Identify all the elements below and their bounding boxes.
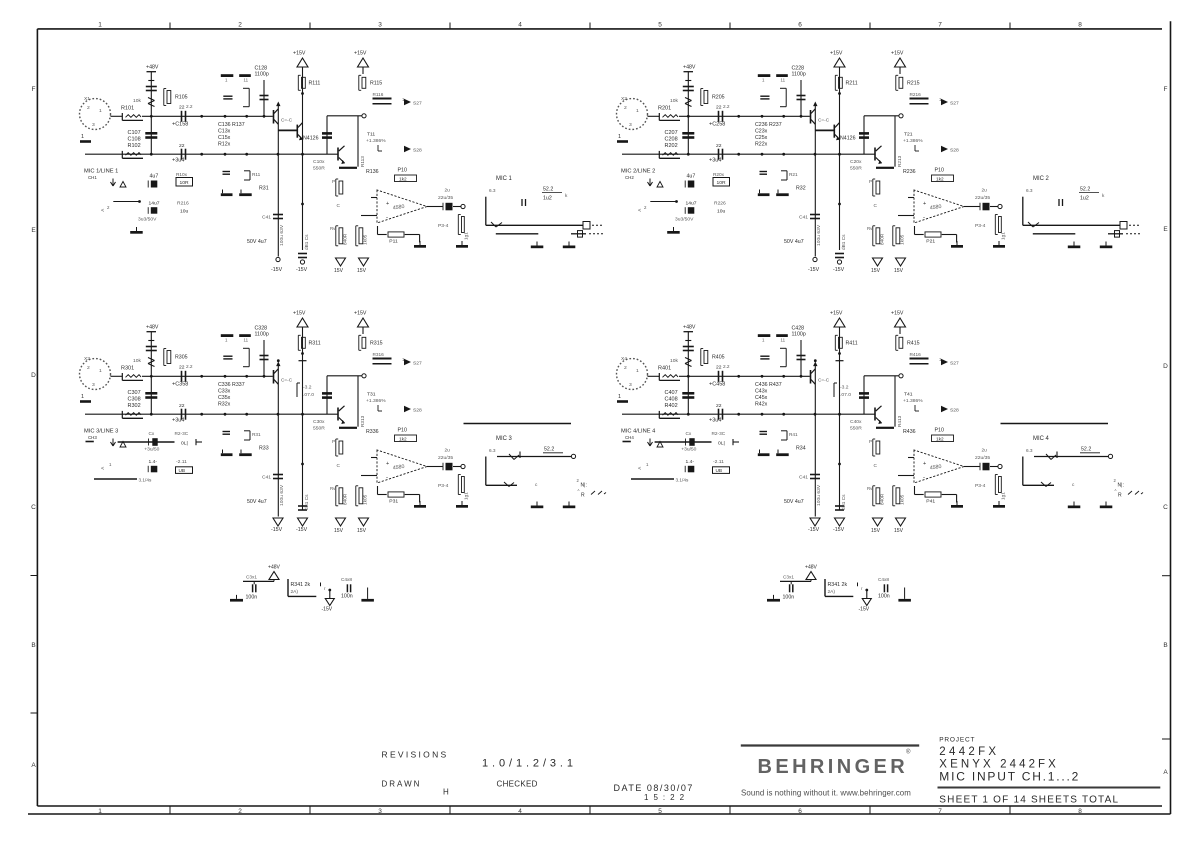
junction dot x302: [838, 92, 841, 95]
off-page arrow OUT B CH1: [404, 146, 411, 152]
svg-text:S28: S28: [950, 148, 959, 154]
row tick left: [31, 575, 38, 577]
svg-text:R305: R305: [175, 355, 188, 361]
svg-text:14u7: 14u7: [149, 201, 160, 207]
svg-text:^: ^: [578, 489, 580, 494]
transistor Q41a (PNP input): [810, 370, 812, 384]
svg-text:C: C: [874, 203, 878, 209]
svg-text:C=-C: C=-C: [818, 378, 830, 384]
svg-text:+48V: +48V: [146, 65, 159, 71]
svg-text:C107: C107: [128, 130, 141, 136]
svg-text:F: F: [32, 86, 36, 93]
wire collector node to terminal: [864, 115, 899, 117]
transistor Q11b (PNP): [278, 129, 296, 131]
XLR X1 pin 1 chassis bar: [80, 140, 91, 143]
svg-text:B: B: [1163, 642, 1167, 649]
svg-text:22u/35: 22u/35: [438, 455, 453, 461]
transistor Q42: [874, 408, 876, 421]
svg-text:+15V: +15V: [354, 51, 367, 57]
svg-text:R: R: [1118, 493, 1122, 499]
jack ground 1: [1073, 242, 1075, 246]
svg-text:550R: 550R: [850, 166, 862, 172]
svg-text:Cx: Cx: [149, 431, 155, 437]
phantom filter A: capacitor CA1: [252, 584, 254, 592]
capacitor C350 gray pair: [223, 431, 231, 433]
node rail A (hot) CH2: [679, 115, 810, 117]
svg-text:1: 1: [618, 134, 621, 140]
resistor R423 vertical: [872, 486, 874, 506]
jack tip wire CH4: [1022, 457, 1024, 486]
svg-text:11: 11: [781, 338, 786, 343]
svg-text:3: 3: [378, 22, 382, 29]
ground at output: [998, 241, 1000, 245]
ground at output: [998, 501, 1000, 505]
svg-text:2: 2: [87, 365, 90, 371]
svg-text:1100p: 1100p: [792, 72, 806, 78]
junction dots rail B: [150, 413, 153, 416]
svg-text:C: C: [874, 463, 878, 469]
svg-text:N|:: N|:: [1118, 483, 1124, 489]
svg-text:C=-C: C=-C: [818, 118, 830, 124]
resistor R202 (rail B): [658, 151, 660, 158]
phantom filter A: ground left: [236, 595, 238, 599]
network box (lower): [713, 467, 730, 474]
node rail B (cold) CH3: [85, 413, 338, 415]
svg-text:2.2: 2.2: [186, 364, 193, 370]
svg-text:10k: 10k: [670, 358, 678, 364]
svg-text:C3x1: C3x1: [783, 575, 794, 581]
column tick bottom 3: [449, 806, 451, 814]
svg-text:C108: C108: [128, 137, 141, 143]
svg-text:+15V: +15V: [354, 311, 367, 317]
resistor R305 (vertical, right of V1): [163, 349, 165, 366]
decoupling bars pair: [758, 453, 770, 456]
svg-text:F: F: [1164, 86, 1168, 93]
svg-text:P: P: [332, 179, 335, 185]
svg-text:R201: R201: [658, 106, 671, 112]
+15V supply triangle (Q31 bias): [297, 318, 308, 327]
jack switch contact: [491, 222, 496, 227]
svg-text:P11: P11: [389, 238, 398, 244]
ground at feedback: [419, 501, 421, 505]
branch -15V triangle x278: [273, 518, 283, 526]
svg-text:-: -: [923, 215, 925, 221]
svg-text:+1.386%: +1.386%: [903, 138, 923, 144]
decoupling bars pair: [758, 193, 770, 196]
jack switch contact: [509, 454, 514, 460]
svg-text:1: 1: [618, 394, 621, 400]
capacitor C359 (rail B series): [181, 409, 183, 420]
svg-text:1.4-: 1.4-: [149, 459, 158, 465]
emitter bar under Q22: [876, 167, 894, 169]
line input wire CH3: [86, 441, 94, 443]
svg-text:22: 22: [716, 403, 722, 409]
op-amp output stub: [964, 466, 969, 468]
svg-text:.07.0: .07.0: [303, 392, 314, 398]
svg-text:R216: R216: [177, 201, 189, 207]
svg-text:R211: R211: [846, 81, 858, 87]
svg-text:S28: S28: [413, 408, 422, 414]
column tick bottom 2: [309, 806, 311, 814]
svg-text:1k05: 1k05: [363, 234, 369, 245]
svg-text:C336 R337: C336 R337: [218, 382, 245, 388]
svg-text:-: -: [386, 215, 388, 221]
svg-text:C208: C208: [665, 137, 678, 143]
diodes D11 D12 on V1: [148, 98, 155, 101]
ground at feedback: [956, 241, 958, 245]
svg-text:10R: 10R: [717, 180, 726, 186]
capacitor C131 on branch x264: [263, 80, 265, 116]
phantom feed wire V1 CH3: [150, 332, 152, 415]
svg-text:15V: 15V: [334, 268, 344, 274]
capacitor C412 on x327: [863, 376, 865, 414]
svg-text:2: 2: [624, 105, 627, 111]
column tick bottom 4: [589, 806, 591, 814]
svg-text:15:22: 15:22: [644, 793, 689, 802]
svg-text:R31: R31: [252, 432, 261, 438]
svg-text:REVISIONS: REVISIONS: [382, 750, 449, 760]
svg-text:D: D: [1163, 363, 1168, 370]
svg-text:+3u4: +3u4: [709, 158, 721, 164]
svg-text:550R: 550R: [313, 166, 325, 172]
resistor R224 vertical: [892, 226, 894, 246]
svg-text:MIC 4: MIC 4: [1033, 436, 1050, 442]
XLR connector X1: [80, 99, 111, 130]
svg-text:2: 2: [87, 105, 90, 111]
AGND triangle: [120, 182, 126, 188]
logo box top rule: [741, 744, 919, 746]
svg-text:2: 2: [238, 22, 242, 29]
svg-text:<: <: [638, 208, 641, 214]
svg-text:5: 5: [658, 22, 662, 29]
svg-text:P10: P10: [398, 168, 407, 174]
svg-text:+48V: +48V: [146, 325, 159, 331]
ground arrow: [648, 182, 651, 186]
svg-text:1: 1: [81, 134, 84, 140]
electrolytic C143: [151, 181, 158, 188]
phantom filter B: capacitor CB2: [883, 584, 885, 592]
capacitor C231 on branch x264: [800, 80, 802, 116]
resistor R211 (vertical on x302): [834, 75, 836, 90]
resistor R115 (vertical): [362, 67, 364, 74]
diodes D31 D32 on V1: [148, 358, 155, 361]
svg-text:T41: T41: [904, 392, 913, 398]
svg-text:+48V: +48V: [268, 565, 281, 571]
-15V triangle 1: [336, 518, 346, 526]
ground GND1 CH2: [673, 227, 675, 231]
feedback network CH2: [914, 226, 916, 235]
svg-text:22: 22: [716, 365, 722, 371]
XLR X2 pin 1 chassis bar: [617, 140, 628, 143]
diodes D21 D22 on V1: [685, 98, 692, 101]
svg-text:P10: P10: [398, 428, 407, 434]
svg-text:C136 R137: C136 R137: [218, 122, 245, 128]
jack ring wire CH2: [1033, 233, 1076, 235]
svg-text:+3u/50: +3u/50: [681, 446, 696, 452]
capacitor C202 between rails: [682, 132, 694, 135]
column tick top 4: [589, 23, 591, 29]
jack cap: [1058, 199, 1060, 206]
svg-text:S27: S27: [413, 101, 422, 107]
capacitor C250 gray pair: [760, 171, 768, 173]
svg-text:8: 8: [1078, 22, 1082, 29]
jack ground 1: [536, 242, 538, 246]
svg-text:840R: 840R: [343, 233, 349, 245]
RF caps C328 C329 (solid bars): [221, 334, 234, 337]
svg-text:2A): 2A): [291, 589, 299, 595]
junction dot x302: [301, 352, 304, 355]
RF caps C428 C429 (solid bars): [758, 334, 771, 337]
row tick right: [1162, 738, 1171, 740]
svg-text:6: 6: [798, 22, 802, 29]
column tick top 6: [869, 23, 871, 29]
svg-text:2u: 2u: [982, 448, 988, 454]
capacitor C403 on V1: [683, 346, 694, 348]
transistor Q21b (PNP): [815, 129, 833, 131]
collector feed wire x302 CH2: [839, 67, 841, 250]
svg-text:-: -: [386, 475, 388, 481]
svg-text:CH1: CH1: [88, 175, 97, 180]
svg-text:C=-C: C=-C: [281, 378, 293, 384]
svg-text:R215: R215: [907, 81, 920, 87]
capacitor C358 (rail A series): [181, 371, 183, 382]
bias branch x278 CH3: [277, 363, 279, 517]
svg-text:P10: P10: [935, 428, 944, 434]
stub line CH3: [94, 478, 137, 480]
svg-text:C=-C: C=-C: [281, 118, 293, 124]
capacitor C141 on x278: [273, 214, 283, 216]
svg-text:-15V: -15V: [833, 267, 845, 273]
jack tip wire CH3: [485, 457, 487, 486]
resistor R411 (vertical on x302): [834, 335, 836, 350]
resistor R302 (rail B): [121, 411, 123, 418]
svg-text:2442FX: 2442FX: [939, 746, 999, 758]
resistor R105 (vertical, right of V1): [163, 89, 165, 106]
svg-text:840R: 840R: [880, 233, 886, 245]
svg-text:+15V: +15V: [830, 311, 843, 317]
line input wire CH4: [623, 441, 631, 443]
emitter bar under Q12: [339, 167, 357, 169]
jack ground 1: [536, 502, 538, 506]
resistor R424 vertical: [892, 486, 894, 506]
svg-text:2.2: 2.2: [723, 104, 730, 110]
svg-text:R213: R213: [897, 155, 903, 167]
resistor R337 (bracket): [243, 347, 249, 349]
svg-text:C25x: C25x: [755, 135, 768, 141]
svg-text:<: <: [101, 208, 104, 214]
phantom filter B: junction tick: [857, 583, 859, 587]
resistor R405 (vertical, right of V1): [700, 349, 702, 366]
collector feed wire x302 CH4: [839, 327, 841, 510]
svg-text:+15V: +15V: [891, 311, 904, 317]
wire corner node CH2: [650, 201, 676, 203]
wire collector node to terminal: [327, 375, 362, 377]
svg-text:-15V: -15V: [271, 267, 283, 273]
svg-text:.07.0: .07.0: [840, 392, 851, 398]
svg-text:+: +: [923, 461, 926, 467]
svg-text:MIC 2: MIC 2: [1033, 176, 1049, 182]
svg-text:C3x1: C3x1: [246, 575, 257, 581]
svg-text:3: 3: [378, 808, 382, 815]
op-amp U1A: [377, 190, 427, 223]
electrolytic C243: [688, 181, 695, 188]
branch -15V triangle x278: [810, 518, 820, 526]
svg-text:CHECKED: CHECKED: [497, 780, 538, 789]
wire Q22 collector to output node: [894, 116, 896, 167]
svg-text:-15V: -15V: [322, 607, 333, 613]
svg-text:R405: R405: [712, 355, 725, 361]
RF caps C228 C229 (solid bars): [758, 74, 771, 77]
svg-text:C41: C41: [262, 215, 271, 221]
phantom filter A: +48V triangle: [269, 572, 279, 580]
svg-text:P3-4: P3-4: [438, 483, 449, 489]
svg-text:6: 6: [798, 808, 802, 815]
+15V supply triangle (output stage): [895, 318, 906, 327]
op-amp U3A: [377, 450, 427, 483]
decoupling bars pair: [221, 193, 233, 196]
svg-text:P3-4: P3-4: [975, 483, 986, 489]
svg-text:R416: R416: [910, 352, 922, 358]
svg-text:R12x: R12x: [218, 142, 231, 148]
svg-text:15V: 15V: [871, 528, 881, 534]
svg-text:P3-4: P3-4: [438, 223, 449, 229]
svg-text:-: -: [923, 475, 925, 481]
sheet border left: [36, 29, 38, 806]
wire end contact: [733, 441, 739, 443]
+15V supply triangle (output stage): [895, 58, 906, 67]
svg-text:N4126: N4126: [303, 136, 319, 142]
svg-text:52.2: 52.2: [543, 187, 553, 193]
column tick top 2: [309, 23, 311, 29]
svg-text:<: <: [101, 466, 104, 472]
bias branch x278 CH1: [277, 103, 279, 257]
svg-text:R316: R316: [373, 352, 385, 358]
resistor R402 (rail B): [658, 411, 660, 418]
svg-text:1100p: 1100p: [255, 72, 269, 78]
svg-text:10k: 10k: [133, 98, 141, 104]
resistor R351 bracket: [244, 430, 250, 432]
title block: rule: [938, 787, 1161, 789]
node rail A (hot) CH1: [142, 115, 273, 117]
column tick top 7: [1009, 23, 1011, 29]
XLR X4 pin 1 chassis bar: [617, 400, 628, 403]
svg-text:1: 1: [98, 808, 102, 815]
svg-text:+C458: +C458: [709, 382, 725, 388]
resistor R121 vertical: [335, 179, 337, 196]
ground at output: [461, 241, 463, 245]
phantom feed wire V1 CH1: [150, 72, 152, 155]
electrolytic C344: [151, 466, 158, 473]
capacitor C102 between rails: [145, 132, 157, 135]
svg-text:R105: R105: [175, 95, 188, 101]
XLR connector X3: [80, 359, 111, 390]
svg-text:S27: S27: [950, 361, 959, 367]
resistor R251 bracket: [781, 170, 787, 172]
svg-text:3: 3: [92, 382, 95, 388]
capacitor C450 gray pair: [760, 431, 768, 433]
svg-text:2.2: 2.2: [723, 364, 730, 370]
svg-text:C30x: C30x: [313, 419, 325, 425]
ground at feedback: [956, 501, 958, 505]
svg-text:4u7: 4u7: [150, 174, 159, 180]
svg-text:+48V: +48V: [805, 565, 818, 571]
resistor R215 (vertical): [899, 67, 901, 74]
svg-text:15V: 15V: [357, 528, 367, 534]
svg-text:1k2: 1k2: [399, 177, 407, 183]
svg-text:22: 22: [716, 105, 722, 111]
jack sleeve wire CH4: [1023, 484, 1054, 486]
emitter bar under Q42: [876, 427, 894, 429]
negative rail terminal x278: [276, 257, 280, 261]
svg-text:P31: P31: [389, 498, 398, 504]
ground arrow: [111, 442, 114, 446]
svg-text:R42x: R42x: [755, 402, 768, 408]
capacitor C150 gray pair: [223, 171, 231, 173]
ground arrow: [648, 442, 651, 446]
resistor R315 (vertical): [362, 327, 364, 334]
thermal pair bracket: [833, 383, 835, 397]
svg-text:-2.11: -2.11: [713, 459, 724, 465]
svg-text:+3u4: +3u4: [172, 158, 184, 164]
svg-text:-15V: -15V: [271, 527, 283, 533]
svg-text:R413: R413: [897, 415, 903, 427]
svg-text:MIC 1: MIC 1: [496, 176, 513, 182]
XLR connector X4: [617, 359, 648, 390]
svg-text:52.2: 52.2: [544, 446, 554, 452]
svg-text:R301: R301: [121, 366, 134, 372]
sheet border top: [37, 28, 1162, 30]
bias branch x278 CH4: [814, 363, 816, 517]
column tick top 5: [729, 23, 731, 29]
svg-text:840R: 840R: [343, 493, 349, 505]
svg-text:2u: 2u: [445, 188, 451, 194]
svg-text:22u/35: 22u/35: [975, 455, 990, 461]
svg-text:1g1: 1g1: [464, 232, 470, 240]
junction dots rail A: [150, 115, 153, 118]
svg-text:2: 2: [624, 365, 627, 371]
svg-text:+: +: [923, 201, 926, 207]
svg-text:C43x: C43x: [755, 389, 768, 395]
jack cap: [521, 199, 523, 206]
junction dots rail A: [687, 115, 690, 118]
node rail A (hot) CH3: [142, 375, 273, 377]
svg-text:C33x: C33x: [218, 389, 231, 395]
svg-text:22: 22: [179, 403, 185, 409]
svg-text:100n: 100n: [246, 595, 258, 601]
svg-text:R101: R101: [121, 106, 134, 112]
junction dots rail B: [687, 153, 690, 156]
op-amp output stub: [427, 466, 432, 468]
svg-text:0L|: 0L|: [718, 441, 725, 447]
stub line CH4: [631, 478, 674, 480]
branch -15V triangle x302: [298, 505, 307, 507]
svg-text:C35x: C35x: [218, 395, 231, 401]
svg-text:R113: R113: [360, 156, 366, 167]
capacitor C431 on branch x264: [800, 340, 802, 376]
junction dots rail A: [150, 375, 153, 378]
XLR X3 pin 1 chassis bar: [80, 400, 91, 403]
svg-text:C: C: [337, 463, 341, 469]
resistor R401 (rail A): [658, 373, 660, 380]
svg-text:R401: R401: [658, 366, 671, 372]
svg-text:R33: R33: [259, 446, 269, 452]
svg-text:C: C: [1163, 504, 1168, 511]
svg-text:+C258: +C258: [709, 122, 725, 128]
svg-text:P10: P10: [935, 168, 944, 174]
svg-text:C436 R437: C436 R437: [755, 382, 782, 388]
op-amp U4A: [914, 450, 964, 483]
column tick bottom 5: [729, 806, 731, 814]
